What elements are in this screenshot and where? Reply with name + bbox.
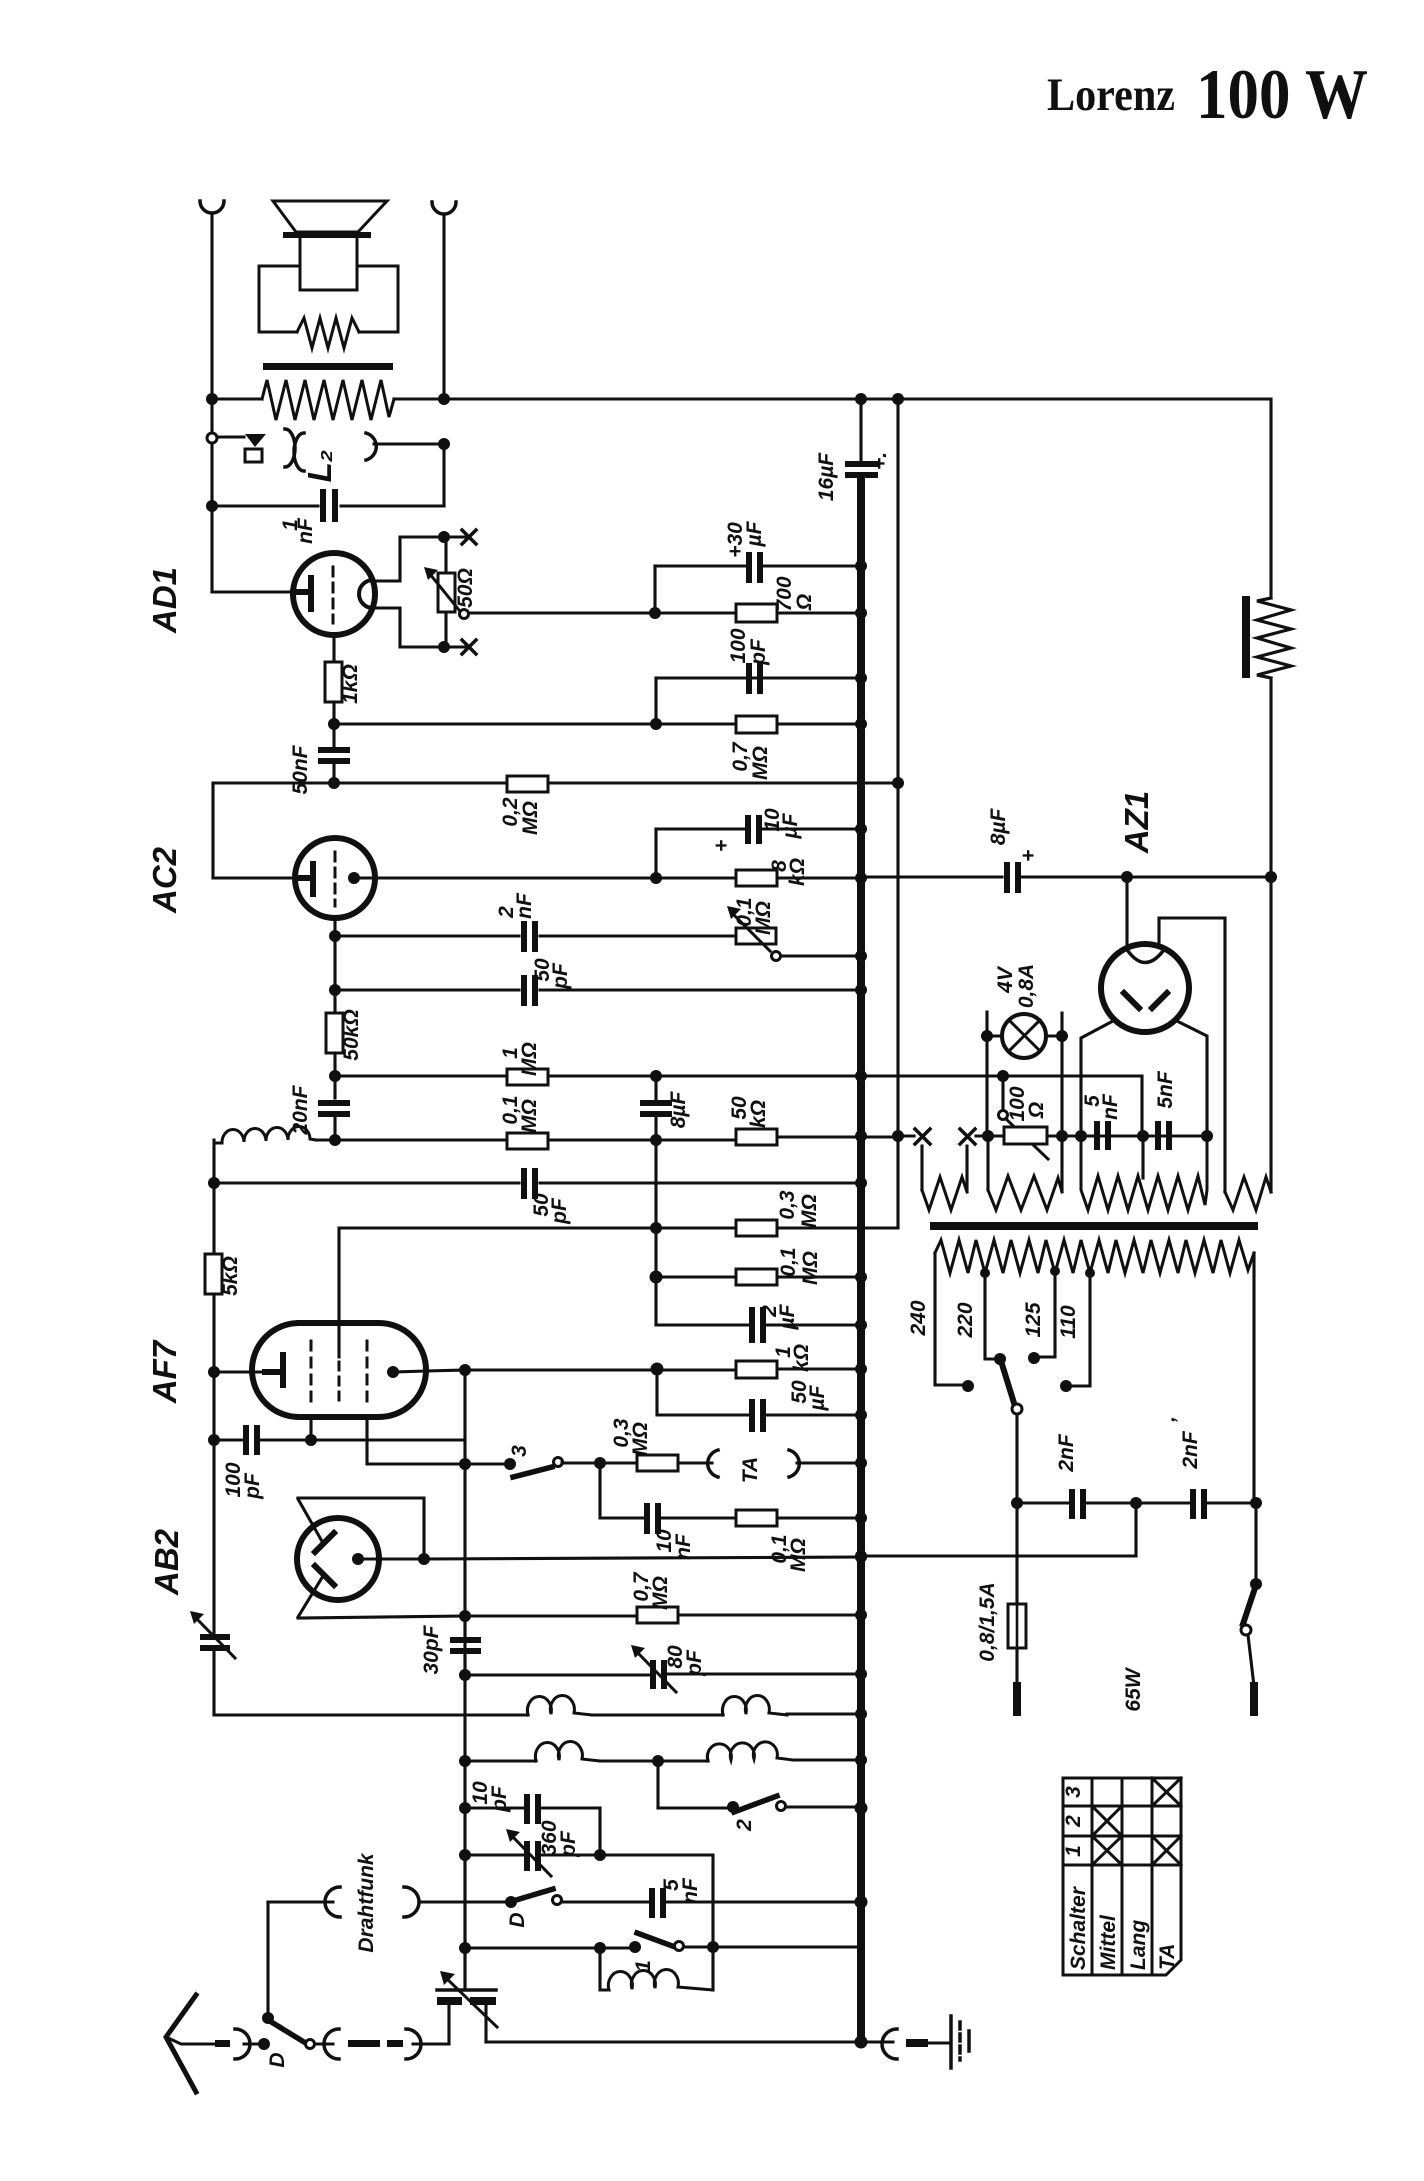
node 1761 x658 <box>652 1755 664 1767</box>
wire right vertical top <box>442 214 445 399</box>
wire 1325 line <box>656 1323 861 1326</box>
node AZ1 anode left <box>1075 1130 1087 1142</box>
node 16uF rail <box>855 393 867 405</box>
node 1464 x465 <box>459 1458 471 1470</box>
wire AF7 anode line <box>393 1369 861 1372</box>
svg-text:AC2: AC2 <box>146 846 183 914</box>
rheostat 50 ohm body <box>438 573 455 612</box>
node AB2 top x424 <box>418 1553 430 1565</box>
capacitor 5nF b <box>1155 1121 1161 1150</box>
tube AB2 envelope <box>297 1518 379 1600</box>
svg-text:µF: µF <box>779 812 802 839</box>
potentiometer wiper arrow <box>733 914 770 951</box>
resistor 1 MOhm <box>507 1069 548 1085</box>
label AC2 <box>146 846 183 914</box>
winding 1 legs <box>922 1146 967 1190</box>
winding 3 tap <box>1141 1136 1144 1178</box>
capacitor 50pF <box>521 975 527 1006</box>
key contact triangle <box>245 434 266 447</box>
resistor 700 Ohm <box>736 604 777 622</box>
svg-text:nF: nF <box>1099 1093 1122 1120</box>
switch 2 contact dot <box>727 1801 739 1813</box>
resistor 0,1 MOhm (y1518) <box>736 1510 777 1526</box>
svg-text:kΩ: kΩ <box>790 1344 813 1372</box>
switch D2 lever <box>268 2020 304 2042</box>
svg-text:D: D <box>506 1912 529 1927</box>
wire coil to bus <box>787 1712 861 1715</box>
switch 1 contact dot <box>629 1941 641 1953</box>
wire 100pF line <box>214 1438 465 1441</box>
label AF7 <box>146 1339 183 1404</box>
node 898 rail <box>892 393 904 405</box>
node grid1 1440 <box>305 1434 317 1446</box>
coil IF 2b <box>707 1742 793 1761</box>
X cell col4 row1 <box>1152 1778 1181 1806</box>
svg-text:MΩ: MΩ <box>518 1042 541 1076</box>
svg-text:nF: nF <box>513 892 536 919</box>
node 1nF left <box>206 500 218 512</box>
wire AB2 bottom line <box>298 1615 861 1618</box>
switch 3 open contact <box>554 1458 563 1467</box>
coil HF choke <box>214 1126 316 1143</box>
pot 100 Ohm body <box>1004 1127 1047 1144</box>
node 1761 x465 <box>459 1755 471 1767</box>
svg-text:0,8/1,5A: 0,8/1,5A <box>976 1582 999 1661</box>
wire switch2 to bus <box>786 1805 861 1808</box>
svg-text:L₂: L₂ <box>301 450 338 483</box>
resistor 0,1 MOhm (y1277) <box>736 1269 777 1285</box>
node 125 contact <box>1028 1352 1040 1364</box>
node 220 contact <box>994 1353 1006 1365</box>
wire right vertical to cap line <box>442 444 445 506</box>
trimmer 80pF plates <box>650 1660 656 1689</box>
node 829 mid <box>650 872 662 884</box>
node 110 contact <box>1060 1380 1072 1392</box>
AB2 bottom anode lead <box>298 1576 323 1617</box>
switch 3 lever <box>513 1467 552 1477</box>
coil IF 2a <box>535 1742 600 1761</box>
wire AB2 top loop <box>298 1498 424 1559</box>
node 1714 bus <box>855 1708 867 1720</box>
wire 50k to 1076 <box>333 1053 336 1098</box>
capacitor 100pF (AF7) <box>243 1425 249 1455</box>
wire 10uF line <box>656 827 861 830</box>
svg-text:110: 110 <box>1057 1305 1080 1339</box>
wire Drahtfunk left <box>268 1900 333 1903</box>
node 1808 bus <box>855 1802 868 1815</box>
node 1948 x600 <box>594 1942 606 1954</box>
wire lamp left riser <box>985 1012 988 1136</box>
wire antenna feed <box>166 2037 214 2044</box>
node ant riser contact <box>262 2012 274 2024</box>
wire left riser to ant switch <box>266 1902 269 2018</box>
AZ1 filament arc <box>1128 951 1163 963</box>
mains switch lever <box>1243 1588 1255 1624</box>
trimmer arrow <box>196 1618 235 1658</box>
winding 2 legs <box>988 1136 1062 1190</box>
table frame <box>1063 1778 1181 1975</box>
node 1855 x600 <box>594 1849 606 1861</box>
node 724 mid <box>650 718 662 730</box>
wire to key contact <box>218 435 244 438</box>
wire 20nF to 1140 <box>333 1117 336 1140</box>
wire wiper to bus <box>781 954 861 957</box>
wire lamp left lead <box>987 1034 1002 1037</box>
wire 990 line <box>335 988 861 991</box>
node 1556 bus <box>855 1550 867 1562</box>
title Lorenz 100 W <box>1047 56 1368 134</box>
capacitor 50uF <box>749 1399 755 1432</box>
AD1 grid bar <box>293 578 311 609</box>
primary winding zigzag <box>935 1240 1254 1273</box>
node 1228 mid <box>650 1222 662 1234</box>
wire line y724 <box>334 722 861 725</box>
switch 1 lever <box>637 1933 675 1947</box>
wire left vertical top <box>210 213 213 431</box>
wire 2nF line <box>1017 1501 1256 1504</box>
coil IF 1a <box>527 1696 592 1715</box>
wire AC2 left riser <box>211 783 214 878</box>
wire left column lower <box>212 1651 215 1715</box>
X mark top <box>462 530 476 544</box>
node 1076 <box>329 1070 341 1082</box>
wire 1761 coil line <box>465 1759 536 1762</box>
tap 220 <box>980 1268 990 1278</box>
svg-text:3: 3 <box>508 1445 531 1457</box>
node 990 bus <box>855 984 867 996</box>
X cell col2 row3 <box>1092 1836 1122 1865</box>
AC2 grid bar <box>296 864 313 894</box>
wire to mains pin right <box>1248 1635 1254 1686</box>
svg-text:AB2: AB2 <box>148 1528 185 1596</box>
svg-text:µF: µF <box>776 1303 799 1330</box>
wire x658 down to switch2 <box>656 1761 659 1808</box>
capacitor 50pF (y1183) <box>521 1168 527 1199</box>
wire 10pF right riser <box>598 1808 601 1855</box>
lamp 4V 0,8A <box>1002 1014 1046 1058</box>
node 1616 x465 <box>459 1610 471 1622</box>
pot 100 Ohm wiper contact <box>999 1111 1008 1120</box>
node 1615 bus <box>855 1609 867 1621</box>
X mark heater 1 <box>915 1129 930 1144</box>
tap 125 <box>1050 1266 1060 1276</box>
AZ1 right anode bar <box>1152 993 1167 1008</box>
node lamp left <box>981 1030 993 1042</box>
svg-text:AF7: AF7 <box>146 1339 183 1404</box>
rheostat 50 ohm vertical leads <box>444 537 447 647</box>
svg-text:MΩ: MΩ <box>649 1576 672 1610</box>
wire AB2 cathode line to bus <box>358 1557 861 1559</box>
wire jack to D2 switch <box>244 2042 263 2045</box>
wire AD1 cathode <box>332 635 335 662</box>
jack L2 right arc <box>366 433 376 460</box>
wire lamp right riser <box>1060 1013 1063 1136</box>
table digits <box>1062 1786 1179 1970</box>
X mark heater 2 <box>960 1129 975 1144</box>
wire cathode to 724 line <box>332 702 335 747</box>
label 65W <box>1122 1666 1145 1711</box>
svg-text:MΩ: MΩ <box>519 801 542 835</box>
node 1277 bus <box>855 1271 867 1283</box>
node 1518 bus <box>855 1512 867 1524</box>
rheostat wiper arrow <box>429 573 459 610</box>
transformer core bar main <box>930 1222 1258 1230</box>
wire 50nF to 783 line <box>332 764 335 783</box>
node 1440 left <box>208 1434 220 1446</box>
node 613 bus <box>855 607 867 619</box>
pot 100 Ohm diagonal <box>1006 1119 1048 1159</box>
node 1947 x713 <box>707 1941 719 1953</box>
label L2 <box>301 450 338 483</box>
node 783 <box>328 777 340 789</box>
node 678 bus <box>855 672 867 684</box>
node 724 bus <box>855 718 867 730</box>
variable capacitor top plate <box>437 1988 496 1992</box>
node mains switch <box>1250 1578 1262 1590</box>
node 1761 bus <box>855 1754 867 1766</box>
svg-text:0,1: 0,1 <box>777 1247 800 1276</box>
svg-text:0,8A: 0,8A <box>1015 964 1038 1008</box>
svg-text:MΩ: MΩ <box>752 901 775 935</box>
winding 3 zigzag <box>1081 1135 1207 1210</box>
node AF7 grid left <box>208 1366 220 1378</box>
wire fuse to pin <box>1015 1648 1018 1686</box>
jack TA arcs <box>708 1450 718 1477</box>
antenna plug bar <box>215 2040 230 2047</box>
main HT bus (thick) <box>857 478 865 2043</box>
node 566 bus <box>855 560 867 572</box>
svg-text:50nF: 50nF <box>289 744 312 794</box>
node top X branch <box>438 531 450 543</box>
wire 1076 line <box>335 1074 861 1077</box>
mains pin left <box>1013 1686 1021 1712</box>
wire D to 5nF <box>562 1900 861 1903</box>
fuse 0,8/1,5A <box>1008 1604 1026 1648</box>
capacitor 30uF <box>746 552 752 583</box>
svg-text:+.: +. <box>868 452 891 470</box>
switch D open contact <box>553 1896 562 1905</box>
node jack right <box>438 438 450 450</box>
antenna jack arc <box>235 2029 250 2059</box>
tube AZ1 envelope <box>1101 944 1189 1032</box>
tube AD1 envelope <box>293 553 375 635</box>
wire D2 to jack <box>315 2042 333 2045</box>
resistor 0,3 MOhm (y1463) <box>637 1455 678 1471</box>
tap 110 <box>1085 1268 1095 1278</box>
wire x465 down <box>463 1855 466 1990</box>
svg-text:8µF: 8µF <box>667 1091 690 1129</box>
node center tap <box>1137 1130 1149 1142</box>
svg-text:kΩ: kΩ <box>786 858 809 886</box>
switch 2 lever <box>734 1796 777 1812</box>
wire coil2 to bus <box>793 1758 861 1761</box>
resistor 0,7 MOhm (y1615) <box>637 1607 678 1623</box>
capacitor 2nF a <box>1069 1489 1075 1519</box>
wire 10nF branch <box>600 1463 861 1518</box>
speaker magnet <box>300 238 357 290</box>
switch D2 open contact <box>306 2040 315 2049</box>
node 1076 mid <box>650 1070 662 1082</box>
wire 1076 lamp line <box>864 1076 1142 1136</box>
wire top rail <box>394 397 1271 400</box>
resistor 1kOhm <box>325 662 342 702</box>
wire primary right lead <box>1252 1253 1255 1503</box>
wire varcap right down <box>484 2005 487 2042</box>
key contact box <box>245 449 262 462</box>
wire 360pF line <box>465 1853 600 1856</box>
terminal right speaker <box>432 202 456 214</box>
svg-text:2nF: 2nF <box>1055 1433 1078 1473</box>
capacitor 1nF <box>320 489 326 522</box>
wire AF7 grid <box>214 1370 279 1373</box>
AB2 top anode lead <box>298 1499 323 1543</box>
wire AD1 anode top branch <box>373 537 465 581</box>
AB2 top anode bar <box>315 1533 334 1552</box>
switch L2 open contact <box>207 433 217 443</box>
wire x898 vertical <box>896 399 899 1228</box>
svg-text:MΩ: MΩ <box>799 1251 822 1285</box>
node 1140 mid <box>650 1134 662 1146</box>
svg-text:MΩ: MΩ <box>798 1194 821 1228</box>
node 240 tap <box>962 1380 974 1392</box>
capacitor 10pF <box>524 1794 530 1824</box>
svg-text:pF: pF <box>747 638 770 666</box>
jack ground arc <box>882 2029 897 2059</box>
jack blocked right arc <box>406 2029 421 2059</box>
capacitor 2nF b <box>1190 1489 1196 1519</box>
node 1808 x465 <box>459 1802 471 1814</box>
svg-text:+: + <box>710 840 733 852</box>
capacitor 30pF <box>463 1616 466 1675</box>
wire grid3 tail <box>367 1417 509 1464</box>
AF7 anode dot <box>387 1366 399 1378</box>
node 1076 pot tap <box>997 1070 1009 1082</box>
wire 829 corner <box>654 829 657 878</box>
svg-text:1: 1 <box>1062 1845 1085 1857</box>
capacitor 360pF plates <box>524 1841 530 1871</box>
wire between coils 2 <box>600 1759 708 1762</box>
tube AC2 envelope <box>295 838 375 918</box>
capacitor 2nF <box>521 921 527 952</box>
selector lever <box>1001 1361 1014 1403</box>
wire left vertical mid <box>210 444 213 592</box>
node 1415 bus <box>855 1409 867 1421</box>
wire 80pF line <box>465 1674 861 1675</box>
field coil zigzag <box>1257 598 1291 678</box>
wire AD1 grid <box>212 590 293 593</box>
wire AC2 grid <box>213 876 296 879</box>
wire 1277 line <box>656 1275 861 1278</box>
AF7 cathode bar <box>265 1355 283 1385</box>
svg-text:pF: pF <box>548 1197 571 1225</box>
resistor 8 kOhm <box>736 870 777 886</box>
transformer primary zigzag <box>262 380 394 420</box>
speaker field box <box>259 266 398 332</box>
svg-text:Lorenz: Lorenz <box>1047 69 1175 121</box>
node 877 AZ1 filament <box>1121 871 1133 883</box>
svg-text:Mittel: Mittel <box>1097 1914 1120 1970</box>
trimmer 80pF arrow <box>637 1652 676 1692</box>
svg-text:AD1: AD1 <box>146 567 183 634</box>
svg-text:Schalter: Schalter <box>1067 1885 1090 1970</box>
wire 1715 coil line <box>214 1713 528 1716</box>
node 783 right <box>892 777 904 789</box>
svg-text:nF: nF <box>294 517 317 544</box>
svg-text:4V: 4V <box>994 965 1017 994</box>
speaker horn <box>273 201 387 232</box>
svg-text:pF: pF <box>549 962 572 990</box>
wire lamp right lead <box>1046 1034 1062 1037</box>
svg-text:125: 125 <box>1022 1302 1045 1337</box>
svg-text:MΩ: MΩ <box>749 746 772 780</box>
node 990 <box>329 984 341 996</box>
node 936 <box>329 930 341 942</box>
wire to ground <box>928 2041 949 2044</box>
node 829 bus <box>855 823 867 835</box>
node 1137 x898 <box>892 1130 904 1142</box>
svg-text:MΩ: MΩ <box>518 1099 541 1133</box>
resistor 5 kOhm <box>205 1254 222 1294</box>
antenna symbol <box>166 1995 196 2092</box>
resistor 0,2 MOhm <box>507 776 548 792</box>
node lamp right <box>1056 1030 1068 1042</box>
node 956 bus <box>855 950 867 962</box>
svg-text:2: 2 <box>1062 1815 1085 1828</box>
svg-text:5nF: 5nF <box>1154 1070 1177 1109</box>
selector pivot contact <box>1012 1404 1022 1414</box>
svg-text:16µF: 16µF <box>815 452 838 501</box>
ground symbol <box>949 2016 953 2068</box>
trimmer capacitor left column <box>200 1634 230 1640</box>
capacitor 16uF at bus top <box>859 399 862 482</box>
label Drahtfunk <box>355 1852 378 1952</box>
resistor 0,3 MOhm (y1228) <box>736 1220 777 1236</box>
node 1325 bus <box>855 1319 867 1331</box>
svg-text:MΩ: MΩ <box>787 1538 810 1572</box>
label AB2 <box>148 1528 185 1596</box>
mains switch contact <box>1241 1625 1251 1635</box>
wire 613 line <box>655 611 861 614</box>
speaker field resistor zigzag <box>297 318 359 348</box>
svg-text:Ω: Ω <box>1025 1102 1048 1119</box>
node 1137 bus <box>855 1130 867 1142</box>
capacitor 10uF <box>745 815 751 844</box>
wire AD1 anode bottom branch <box>373 608 465 647</box>
wire coil left riser <box>212 1140 215 1635</box>
node 1076 bus <box>855 1070 867 1082</box>
svg-text:’: ’ <box>1168 1417 1191 1424</box>
svg-text:30pF: 30pF <box>420 1624 443 1674</box>
wire switch3 to 0,3M <box>562 1461 637 1464</box>
wire jack to right vertical <box>374 442 444 445</box>
svg-text:65W: 65W <box>1122 1666 1145 1711</box>
wire 30uF line <box>655 564 861 567</box>
coil antenna <box>600 1970 713 1990</box>
wire 936 line <box>335 934 736 937</box>
wire x656 ladder vertical <box>654 1140 657 1325</box>
svg-text:kΩ: kΩ <box>747 1100 770 1128</box>
node 1902 bus <box>855 1896 868 1909</box>
wire line y783 <box>213 781 898 784</box>
node anode x657 <box>651 1363 664 1376</box>
node anode x465 <box>459 1364 471 1376</box>
svg-text:nF: nF <box>679 1877 702 1904</box>
wire AZ1 filament left lead <box>1125 877 1128 949</box>
wire 0,3M ladder line y1228 <box>339 1226 898 1229</box>
svg-text:MΩ: MΩ <box>629 1422 652 1456</box>
node 1183 bus <box>855 1177 867 1189</box>
node AZ1 anode right <box>1201 1130 1213 1142</box>
